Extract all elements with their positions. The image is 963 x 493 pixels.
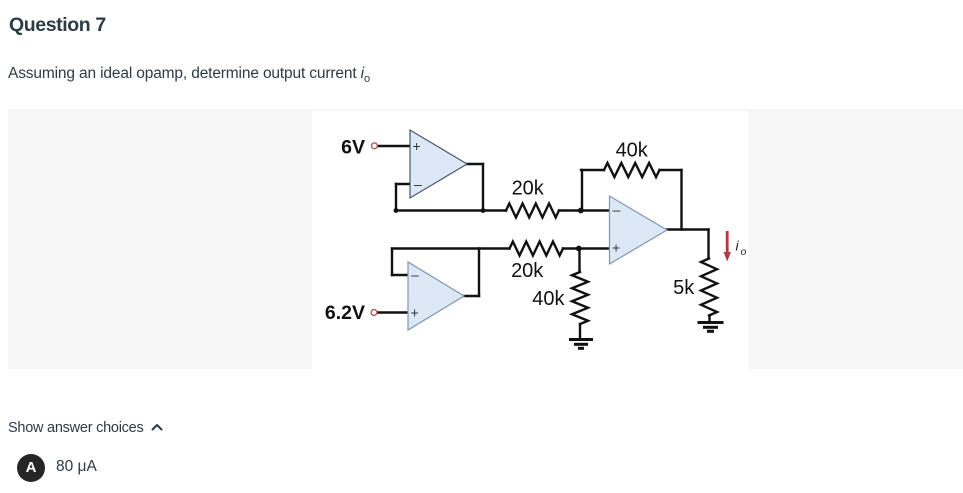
op-amp U3 bbox=[610, 196, 668, 264]
wire U3 feedback left vertical bbox=[581, 170, 583, 211]
ground under R4 bbox=[569, 340, 593, 349]
question text bbox=[8, 65, 370, 85]
svg-text:20k: 20k bbox=[512, 177, 545, 199]
question header bbox=[9, 14, 106, 37]
svg-text:–: – bbox=[613, 202, 621, 218]
wire R3 right lead bbox=[660, 169, 682, 171]
ground under R5 bbox=[698, 323, 724, 332]
wire U2 minus stub bbox=[392, 274, 408, 276]
junction U1 output corner bbox=[481, 208, 486, 213]
answer A text bbox=[56, 458, 97, 476]
wire R5 bottom lead to ground bbox=[708, 316, 710, 323]
wire U1 minus stub bbox=[396, 183, 410, 185]
junction node B plus net bbox=[576, 246, 582, 252]
wire R4 bottom lead to ground bbox=[579, 324, 581, 339]
svg-text:o: o bbox=[741, 246, 747, 258]
resistor R1 20k bbox=[506, 204, 559, 218]
resistor R5 5k bbox=[701, 259, 717, 316]
wire U1 output bbox=[467, 163, 483, 165]
resistor R2 20k bbox=[510, 242, 564, 256]
svg-text:5k: 5k bbox=[673, 277, 695, 299]
terminal 6.2V bbox=[371, 310, 377, 316]
resistor R3 40k feedback bbox=[604, 163, 660, 177]
wire U3 feedback right vertical bbox=[680, 170, 682, 230]
wire output down to R5 bbox=[707, 230, 709, 259]
wire 6V to U1 + input bbox=[378, 145, 411, 147]
show answer choices row bbox=[8, 420, 163, 436]
current arrow io bbox=[724, 231, 731, 262]
wire U1 output down vertical bbox=[482, 164, 484, 211]
junction U1 feedback corner bbox=[394, 208, 399, 213]
answer A badge bbox=[17, 454, 45, 482]
wire U3 output bbox=[667, 228, 709, 230]
wire U2 feedback left vertical bbox=[391, 249, 393, 276]
svg-text:i: i bbox=[736, 238, 740, 254]
resistor R4 40k to ground bbox=[572, 272, 588, 324]
junction node A minus net bbox=[578, 208, 584, 214]
op-amp U1 bbox=[410, 130, 467, 198]
gray panel bbox=[8, 109, 963, 369]
svg-text:–: – bbox=[414, 176, 422, 192]
wire U2 top to R2 bbox=[392, 247, 510, 249]
wire U1 feedback left vertical bbox=[395, 184, 397, 211]
op-amp U2 bbox=[408, 262, 464, 330]
circuit image box bbox=[312, 111, 749, 369]
wire R1 to U3 minus input bbox=[559, 209, 610, 211]
wire U2 output up vertical bbox=[478, 249, 480, 297]
svg-text:6V: 6V bbox=[341, 136, 365, 158]
svg-text:6.2V: 6.2V bbox=[325, 302, 365, 324]
svg-text:+: + bbox=[411, 305, 419, 321]
wire U2 output bbox=[464, 295, 479, 297]
terminal 6V bbox=[372, 143, 378, 149]
wire R2 to U3 plus input bbox=[563, 247, 610, 249]
wire R4 top lead bbox=[578, 249, 580, 273]
wire 6.2V to U2 + input bbox=[377, 311, 408, 313]
svg-text:40k: 40k bbox=[616, 140, 649, 162]
svg-text:+: + bbox=[413, 138, 421, 154]
svg-text:+: + bbox=[612, 240, 620, 256]
svg-text:–: – bbox=[411, 267, 419, 283]
wire U1 bottom to R1 bbox=[396, 209, 506, 211]
svg-text:40k: 40k bbox=[532, 288, 565, 310]
svg-text:20k: 20k bbox=[511, 260, 544, 282]
wire R3 left lead bbox=[581, 169, 604, 171]
